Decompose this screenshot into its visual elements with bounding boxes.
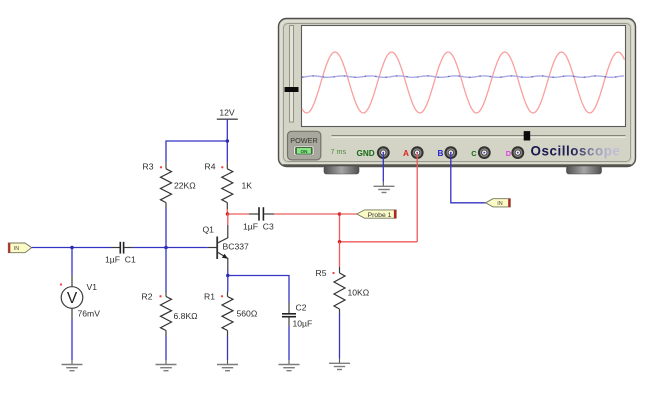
wire connector A to node bbox=[416, 153, 418, 242]
channel B trace (blue) bbox=[302, 76, 624, 77]
connector C bbox=[478, 146, 491, 159]
wire 12V down to junction bbox=[226, 119, 228, 141]
svg-text:ON: ON bbox=[301, 149, 309, 154]
svg-text:D: D bbox=[506, 149, 512, 158]
GND connector bbox=[377, 146, 390, 159]
svg-text:V: V bbox=[67, 290, 78, 307]
svg-text:R3: R3 bbox=[143, 161, 154, 171]
wire V1 to ground bbox=[71, 320, 73, 361]
wire R4 to collector node bbox=[226, 209, 228, 214]
svg-text:560Ω: 560Ω bbox=[237, 309, 258, 319]
vertical position slider track bbox=[290, 26, 294, 123]
wire connector B down bbox=[451, 153, 486, 203]
horizontal slider handle bbox=[524, 131, 531, 140]
wire C1 to base bbox=[133, 247, 208, 249]
ground (C2) bbox=[279, 364, 300, 366]
svg-text:GND: GND bbox=[357, 149, 375, 158]
junction (12V rail) bbox=[226, 139, 230, 143]
resistor R1 bbox=[204, 291, 258, 336]
svg-text:V1: V1 bbox=[87, 282, 98, 292]
svg-text:7 ms: 7 ms bbox=[331, 147, 347, 156]
horizontal time slider track bbox=[332, 135, 626, 137]
svg-text:B: B bbox=[438, 149, 444, 158]
wire IN to C1 bbox=[32, 247, 111, 249]
junction (base node) bbox=[164, 246, 168, 250]
transistor Q1 bbox=[203, 224, 249, 269]
junction (probe node) bbox=[338, 212, 342, 216]
junction (R5/A node) bbox=[338, 240, 342, 244]
ground (V1) bbox=[62, 364, 83, 366]
svg-text:C: C bbox=[471, 149, 477, 158]
wire R5 to ground bbox=[339, 314, 341, 359]
wire R3 to base node bbox=[165, 208, 167, 248]
junction (V1 branch) bbox=[70, 246, 74, 250]
IN tag (circuit input) bbox=[8, 243, 31, 253]
POWER panel bbox=[288, 131, 321, 160]
connector B bbox=[444, 146, 457, 159]
svg-text:R5: R5 bbox=[316, 268, 327, 278]
wire collector node to C3 bbox=[228, 213, 250, 215]
channel A trace (red sine) bbox=[302, 52, 625, 113]
svg-text:R4: R4 bbox=[205, 161, 216, 171]
ground (oscilloscope GND) bbox=[374, 185, 395, 187]
svg-text:A: A bbox=[403, 149, 409, 158]
svg-text:R1: R1 bbox=[204, 291, 215, 301]
svg-text:1µF C3: 1µF C3 bbox=[243, 222, 274, 232]
wire base node to R2 bbox=[165, 248, 167, 292]
svg-text:6.8KΩ: 6.8KΩ bbox=[174, 311, 199, 321]
wire R5 node down bbox=[339, 242, 341, 267]
wire probe node down bbox=[339, 214, 341, 242]
svg-text:IN: IN bbox=[497, 201, 502, 207]
wire rail to R4 bbox=[226, 141, 228, 163]
wire emitter down bbox=[227, 270, 229, 276]
connector A bbox=[411, 146, 424, 159]
ground (R1) bbox=[217, 364, 238, 366]
wire node to A (horizontal) bbox=[340, 241, 418, 243]
wire rail to R3 bbox=[166, 141, 227, 163]
svg-text:R2: R2 bbox=[142, 292, 153, 302]
resistor R3 bbox=[143, 161, 197, 208]
oscilloscope left foot bbox=[324, 166, 359, 174]
resistor R2 bbox=[142, 292, 199, 337]
IN tag (oscilloscope B input) bbox=[486, 199, 511, 208]
oscilloscope XSC1 body bbox=[279, 19, 636, 167]
Probe 1 tag bbox=[357, 210, 396, 219]
ON button bbox=[294, 146, 315, 156]
connector D bbox=[511, 146, 524, 159]
svg-text:POWER: POWER bbox=[290, 136, 318, 145]
svg-text:22KΩ: 22KΩ bbox=[174, 181, 196, 191]
svg-text:Q1: Q1 bbox=[203, 224, 215, 234]
wire emitter node to C2 bbox=[228, 276, 289, 303]
junction (emitter node) bbox=[226, 274, 230, 278]
oscilloscope right foot bbox=[567, 166, 602, 174]
svg-text:1µF C1: 1µF C1 bbox=[105, 254, 136, 264]
capacitor C2 bbox=[282, 303, 312, 329]
oscilloscope screen bbox=[302, 26, 626, 127]
wire R1 to ground bbox=[227, 336, 229, 360]
svg-text:C2: C2 bbox=[296, 303, 307, 313]
ground (R5) bbox=[329, 362, 350, 364]
svg-text:10µF: 10µF bbox=[293, 318, 313, 328]
svg-text:10KΩ: 10KΩ bbox=[348, 287, 370, 297]
12V supply bbox=[217, 107, 238, 119]
wire GND connector to ground bbox=[382, 153, 384, 182]
svg-text:Probe 1: Probe 1 bbox=[368, 212, 392, 219]
wire C2 to ground bbox=[288, 326, 290, 360]
svg-text:Oscilloscope: Oscilloscope bbox=[531, 144, 621, 159]
wire emitter node to R1 bbox=[227, 276, 229, 292]
wire node to probe tag bbox=[340, 213, 357, 215]
svg-text:76mV: 76mV bbox=[78, 309, 101, 319]
source V1 bbox=[60, 275, 100, 320]
resistor R5 bbox=[316, 267, 370, 315]
svg-text:1K: 1K bbox=[242, 181, 253, 191]
wire R2 to ground bbox=[165, 336, 167, 360]
ground (R2) bbox=[156, 364, 177, 366]
capacitor C1 bbox=[105, 242, 136, 264]
svg-text:IN: IN bbox=[14, 246, 19, 252]
wire C3 to probe node bbox=[274, 213, 340, 215]
vertical slider handle bbox=[285, 87, 299, 92]
svg-text:BC337: BC337 bbox=[223, 242, 249, 252]
resistor R4 bbox=[205, 161, 253, 209]
wire V1 branch down bbox=[71, 248, 73, 276]
junction (collector node) bbox=[226, 212, 230, 216]
capacitor C3 bbox=[243, 207, 274, 231]
svg-text:12V: 12V bbox=[219, 107, 235, 117]
wire collector to node bbox=[227, 214, 229, 225]
